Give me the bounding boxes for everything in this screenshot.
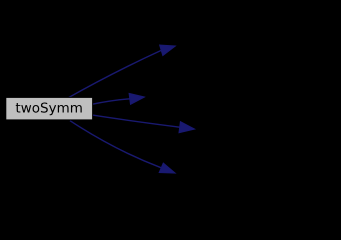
node twoSymm box: [6, 97, 93, 120]
wire edge2: [93, 99, 130, 104]
arrowhead edge1: [160, 45, 176, 56]
wire edge1 to top callee: [66, 50, 162, 99]
node twoSymm label: [16, 102, 82, 115]
arrowhead edge4: [159, 163, 175, 173]
arrowhead edge2: [129, 93, 144, 104]
wire edge4: [70, 121, 161, 168]
wire edge3: [93, 115, 180, 127]
arrowhead edge3: [179, 122, 195, 133]
